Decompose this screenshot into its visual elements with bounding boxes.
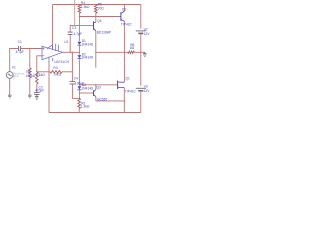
svg-text:20Ω: 20Ω (98, 6, 105, 10)
node Q1 base junction (79, 84, 80, 85)
transistor Q1 TIP41C (118, 81, 125, 89)
wire C1 to op-amp +input (21, 48, 42, 50)
wire feedback node to R3 (37, 71, 50, 73)
source V1 AC (6, 72, 13, 79)
svg-text:1N4148: 1N4148 (82, 86, 94, 90)
wire input node down to R8 (29, 49, 31, 69)
wire Q3 base horizontal (79, 92, 93, 94)
resistor R3 10kOhm (50, 71, 62, 74)
svg-text:12V: 12V (144, 32, 150, 36)
node feedback junction (36, 71, 37, 72)
wire Q2 collector to top rail (123, 5, 125, 12)
node Q4 emitter junction (95, 52, 96, 53)
svg-text:1kΩ: 1kΩ (39, 73, 45, 77)
op-amp V- pin stub (48, 57, 50, 62)
transistor Q4 BD139 (94, 21, 96, 31)
battery V3 12V (136, 87, 146, 89)
wire V1 to C1 (10, 49, 18, 72)
node output/C4 junction (72, 52, 73, 53)
op-amp offset pin stub 2 (57, 45, 59, 52)
capacitor C1 4.7uF (18, 46, 20, 51)
wire D2 down to Q1 base tee (78, 59, 80, 85)
svg-text:BD139BP: BD139BP (97, 31, 111, 35)
node Q2 base junction (79, 16, 80, 17)
wire V1 bottom to ground (9, 78, 11, 95)
wire R3 to output branch (62, 71, 72, 73)
transistor Q2 TIP42C (121, 11, 125, 21)
svg-text:1N4148: 1N4148 (82, 56, 94, 60)
svg-text:0°: 0° (13, 77, 15, 81)
node input/R8 junction (29, 48, 30, 49)
node V2/load/ground junction (140, 52, 141, 53)
op-amp U1 UA741CH (42, 44, 63, 63)
svg-text:C4: C4 (74, 76, 78, 80)
node load junction (124, 52, 125, 53)
wire R1 bottom to C2 (36, 84, 38, 93)
svg-text:C3: C3 (72, 26, 76, 30)
svg-text:1N4148: 1N4148 (82, 42, 94, 46)
svg-text:12V: 12V (144, 89, 150, 93)
wire Q1 emitter down to bottom rail (123, 88, 125, 113)
wire R4 bottom to Q2 base node (78, 13, 80, 16)
resistor R2 1.3kOhm (78, 98, 81, 108)
wire C4 bottom to R2 top (72, 84, 79, 98)
svg-text:R3: R3 (53, 66, 57, 70)
battery V2 12V (136, 30, 146, 32)
node Q3 collector junction (95, 84, 96, 85)
wire Q2 base horizontal (79, 16, 121, 18)
svg-text:UA741CH: UA741CH (54, 60, 69, 64)
wire output down through R3 tee to C4 (71, 52, 73, 81)
ground at load/V2 junction (144, 52, 146, 53)
wire op-amp V- supply to bottom rail (48, 61, 50, 113)
resistor R1 1kOhm (36, 72, 39, 84)
wire D1 to output node (78, 46, 80, 53)
wire load junction to ground stub (141, 51, 145, 53)
wire Q1 base horizontal (79, 84, 117, 86)
node output/diode chain junction (79, 52, 80, 53)
wire V2 to output-load junction (140, 34, 142, 86)
wire to off-screen node (top) (74, 0, 76, 25)
svg-text:1.3kΩ: 1.3kΩ (81, 5, 90, 9)
capacitor C3 4.7uF (68, 33, 73, 35)
wire Q3 collector up to Q1 base wire (95, 85, 97, 90)
diode D1 1N4148 (78, 42, 82, 45)
ground under C2 (35, 96, 39, 98)
svg-text:8Ω: 8Ω (130, 46, 135, 50)
svg-text:BC557: BC557 (97, 97, 107, 101)
svg-text:V2: V2 (144, 27, 148, 31)
wire Q4 collector to R5 (95, 13, 97, 22)
svg-text:100µF: 100µF (75, 82, 84, 86)
wire op-amp output (63, 51, 80, 53)
svg-text:Q4: Q4 (97, 19, 102, 23)
ground under R8 (28, 94, 32, 96)
wire output column Q2 emitter down to Q1 (123, 21, 125, 82)
resistor R4 1.3kOhm (78, 5, 81, 14)
wire D3 to Q3 base tee (78, 90, 80, 93)
resistor R5 20Ohm (95, 5, 98, 14)
resistor R6 8Ohm load (128, 51, 135, 53)
svg-text:TIP41C: TIP41C (125, 90, 137, 94)
svg-text:10kΩ: 10kΩ (53, 73, 61, 77)
svg-text:V1: V1 (12, 65, 16, 69)
resistor R8 470kOhm (29, 68, 32, 78)
diode D3 1N4148 (78, 86, 82, 89)
capacitor C2 47uF (34, 92, 40, 94)
svg-text:4.7µF: 4.7µF (74, 32, 82, 36)
wire C3 branch vertical (69, 34, 71, 52)
wire Q4 emitter down (dangling tail past junction) (95, 31, 97, 68)
svg-text:1.3kΩ: 1.3kΩ (81, 105, 90, 109)
svg-text:Q2: Q2 (122, 8, 127, 12)
wire Q2 base node down to D1 (78, 17, 80, 42)
wire Q3 emitter to Q1 emitter column (96, 97, 124, 101)
wire op-amp -input to feedback node (37, 56, 42, 72)
svg-text:470µF: 470µF (35, 89, 44, 93)
op-amp V+ pin diagonal connector (47, 45, 53, 50)
wire bottom -12V rail (49, 112, 141, 114)
svg-text:Q3: Q3 (97, 85, 102, 89)
svg-text:Q1: Q1 (126, 77, 131, 81)
diode D2 1N4148 (78, 55, 82, 58)
wire Q1-base tee to D3 (78, 85, 80, 86)
op-amp offset pin stub (55, 44, 57, 51)
node output/C3 junction (70, 52, 71, 53)
wire right rail upper (to V2) (140, 5, 142, 29)
wire top +12V rail (53, 4, 141, 6)
wire output node to D2 (78, 52, 80, 54)
svg-text:470kΩ: 470kΩ (26, 74, 36, 78)
transistor Q3 BC557 (94, 90, 96, 97)
wire R2 bottom to rail (78, 109, 80, 113)
wire load R6 from output column (124, 51, 127, 53)
wire R8 to ground (29, 78, 31, 95)
wire op-amp V+ supply from top rail (52, 5, 54, 50)
svg-text:4.7µF: 4.7µF (16, 50, 24, 54)
capacitor C4 100uF (70, 80, 76, 82)
wire Q3 base tee to R2 (78, 93, 80, 98)
node Q3 emitter/Q1 emitter junction (124, 100, 125, 101)
op-amp offset pin stub 3 (52, 58, 54, 61)
svg-text:TIP42C: TIP42C (121, 23, 133, 27)
svg-text:C1: C1 (18, 40, 22, 44)
wire Q4 emitter junction to output column (96, 51, 125, 53)
ground under V1 (8, 94, 12, 96)
wire V3 to bottom rail (140, 92, 142, 113)
svg-text:U1: U1 (64, 40, 68, 44)
